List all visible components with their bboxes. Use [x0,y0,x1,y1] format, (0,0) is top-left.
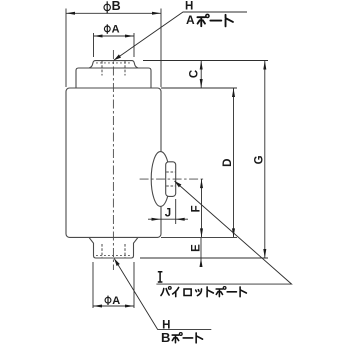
svg-text:A: A [112,24,120,36]
svg-text:A: A [112,295,120,307]
svg-text:A: A [186,13,195,27]
svg-text:G: G [253,155,265,164]
svg-text:F: F [190,205,202,212]
svg-text:C: C [188,70,200,78]
svg-text:D: D [222,159,234,167]
svg-text:H: H [185,0,193,12]
svg-text:E: E [191,244,203,252]
svg-text:B: B [161,330,170,345]
svg-text:J: J [165,208,171,220]
svg-text:B: B [112,0,121,13]
